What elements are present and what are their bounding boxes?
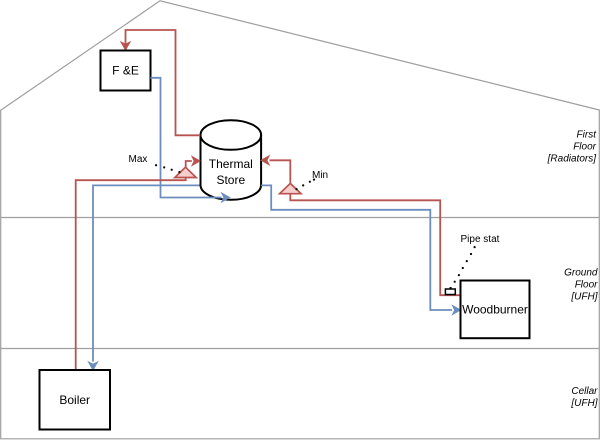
floor line (first floor / ground floor divider) (1, 217, 599, 219)
wire: red flow pipe woodburner-to-store via Min valve (270, 160, 461, 295)
svg-text:[UFH]: [UFH] (570, 398, 597, 409)
F&E box (101, 51, 151, 91)
leader dots for Min (295, 179, 315, 191)
svg-text:Thermal: Thermal (209, 157, 253, 171)
floor line (ground floor / cellar divider) (1, 348, 599, 350)
node: blue arrow into store bottom (222, 193, 230, 202)
node: red arrow into store right side (261, 156, 269, 165)
svg-text:Floor: Floor (575, 279, 598, 290)
node: red arrow into F&E top (121, 42, 130, 50)
svg-text:[UFH]: [UFH] (570, 292, 597, 303)
svg-text:F &E: F &E (112, 64, 139, 78)
svg-text:Store: Store (216, 173, 245, 187)
svg-text:[Radiators]: [Radiators] (547, 154, 597, 165)
node: blue arrow into boiler top (89, 362, 98, 370)
svg-text:Cellar: Cellar (571, 386, 598, 397)
svg-text:First: First (577, 130, 598, 141)
valve V1 Max (triangle) (175, 167, 196, 177)
label Cellar [UFH] (570, 386, 598, 409)
svg-text:Floor: Floor (573, 142, 596, 153)
svg-text:Max: Max (129, 154, 148, 165)
svg-text:Pipe stat: Pipe stat (461, 234, 500, 245)
wire: blue feed pipe F&E-to-store-bottom (151, 78, 222, 198)
wire: blue return pipe store-to-woodburner (261, 185, 452, 310)
node: red arrow into store left side (192, 157, 200, 166)
valve V2 Min (triangle) (280, 183, 301, 193)
label Ground Floor [UFH] (564, 268, 598, 303)
boiler box (40, 370, 111, 430)
svg-text:Ground: Ground (564, 268, 598, 279)
leader dots for Max (155, 164, 180, 173)
thermal store cylinder U1 (200, 120, 261, 200)
svg-text:Boiler: Boiler (59, 393, 90, 407)
label First Floor [Radiators] (547, 130, 598, 165)
node: blue arrow into woodburner left side (453, 306, 461, 315)
wire: red flow pipe boiler-to-store via Max valve (76, 161, 192, 370)
wire: red expansion pipe store-to-F&E (126, 30, 201, 135)
pipe stat sensor symbol (445, 287, 455, 295)
svg-text:Woodburner: Woodburner (462, 303, 528, 317)
wire: blue return pipe store-to-boiler horizontal (passes behind cylinder) (93, 185, 261, 361)
woodburner box (461, 281, 530, 339)
thermal store label (209, 157, 253, 187)
leader dots for Pipe stat (454, 246, 476, 283)
